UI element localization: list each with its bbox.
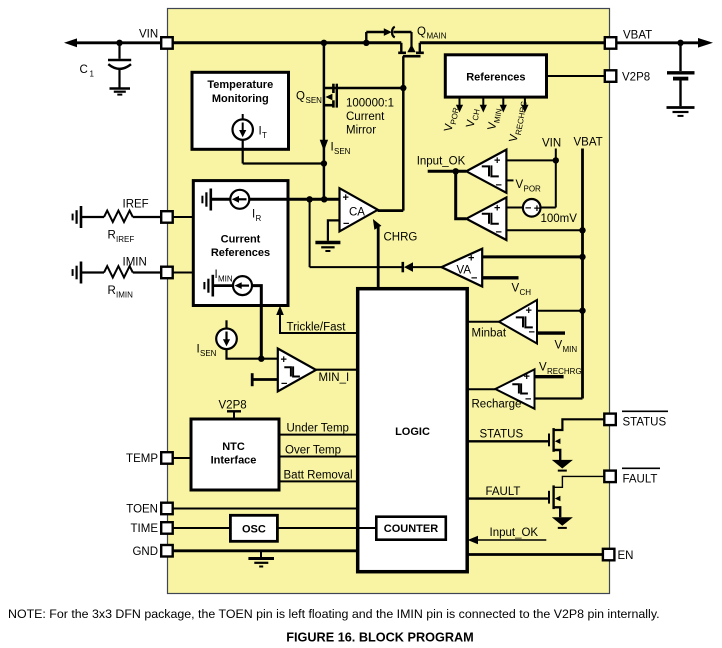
svg-text:FAULT: FAULT xyxy=(486,486,521,498)
comparator Minbat xyxy=(499,300,537,344)
svg-text:Over Temp: Over Temp xyxy=(285,445,341,457)
diode (Q_MAIN body diode) xyxy=(365,32,367,43)
current source I_T xyxy=(242,114,244,120)
svg-text:Mirror: Mirror xyxy=(346,125,376,137)
wire Under Temp xyxy=(279,434,358,436)
wire Input_OK into LOGIC xyxy=(470,539,546,541)
svg-text:References: References xyxy=(466,72,525,84)
svg-text:Temperature: Temperature xyxy=(207,79,273,91)
comparator U_100mV (Input_OK lower) xyxy=(466,197,506,240)
svg-text:Recharge: Recharge xyxy=(472,399,522,411)
svg-text:Trickle/Fast: Trickle/Fast xyxy=(287,321,347,333)
svg-text:Current: Current xyxy=(346,111,385,123)
wire I_T output to sense line xyxy=(242,140,244,164)
svg-text:−: − xyxy=(525,394,531,406)
svg-text:R: R xyxy=(256,214,262,223)
svg-text:SEN: SEN xyxy=(200,349,217,358)
wire FAULT from LOGIC to Q gate xyxy=(467,497,548,499)
svg-text:−: − xyxy=(281,378,287,390)
block Temperature Monitoring xyxy=(192,72,289,149)
current source I_R xyxy=(211,198,231,201)
resistor R_IREF xyxy=(104,211,133,222)
wire CA - input to ground xyxy=(328,220,340,240)
wire I_SEN arrow on sense line xyxy=(320,140,328,151)
wire I_SEN to MIN_I + input xyxy=(227,349,278,359)
svg-text:SEN: SEN xyxy=(306,96,323,105)
svg-text:IMIN: IMIN xyxy=(123,257,147,269)
svg-text:CA: CA xyxy=(349,207,365,219)
pin FAULT xyxy=(604,471,616,483)
pin EN xyxy=(467,553,603,556)
comparator Recharge xyxy=(495,369,534,408)
transistor Q_MAIN (PMOS pass device) xyxy=(400,43,402,52)
svg-text:STATUS: STATUS xyxy=(480,428,524,440)
comparator MIN_I xyxy=(278,349,316,392)
wire Minbat - stub V_MIN xyxy=(537,331,565,334)
wire Recharge output to LOGIC xyxy=(467,388,495,390)
svg-text:LOGIC: LOGIC xyxy=(395,426,430,438)
svg-text:Q: Q xyxy=(417,26,426,38)
node I_MIN/I_SEN junction xyxy=(258,356,264,362)
svg-text:TOEN: TOEN xyxy=(126,504,158,516)
svg-text:POR: POR xyxy=(524,185,542,194)
wire comp - to VBAT line xyxy=(506,229,582,231)
svg-text:100000:1: 100000:1 xyxy=(346,98,394,110)
ground (C1) xyxy=(110,87,131,90)
svg-text:CH: CH xyxy=(520,288,532,297)
wire Minbat + to VBAT line xyxy=(537,310,583,312)
wire STATUS from LOGIC to Q gate xyxy=(467,440,548,442)
svg-text:NOTE: For the 3x3 DFN package: NOTE: For the 3x3 DFN package, the TOEN … xyxy=(8,607,660,621)
svg-text:R: R xyxy=(108,230,116,242)
node Q_SEN branch xyxy=(321,40,327,46)
svg-text:Batt Removal: Batt Removal xyxy=(284,470,353,482)
wire OSC to COUNTER xyxy=(277,527,376,529)
node VIN/C1 junction xyxy=(116,40,122,46)
svg-text:Input_OK: Input_OK xyxy=(417,155,466,167)
wire Over Temp xyxy=(279,456,358,458)
svg-text:−: − xyxy=(496,227,502,239)
svg-text:−: − xyxy=(525,203,531,215)
svg-text:Current: Current xyxy=(221,234,261,246)
wire Minbat output to LOGIC xyxy=(467,321,499,323)
svg-text:Q: Q xyxy=(296,91,305,103)
op-amp VA (voltage amplifier) xyxy=(442,249,483,287)
ground (I_MIN, rotated) xyxy=(212,275,215,297)
ground (FAULT source) xyxy=(552,517,573,526)
wire VA output through diode to I_R node xyxy=(309,199,311,267)
wire Trickle/Fast from LOGIC to Current References xyxy=(280,315,358,334)
wire Batt Removal xyxy=(279,480,358,482)
wire Recharge - to VBAT line xyxy=(535,397,583,399)
capacitor C1 xyxy=(118,43,120,59)
battery (external) xyxy=(679,43,681,71)
node sense line on I_R wire xyxy=(321,196,327,202)
svg-text:−: − xyxy=(496,180,502,192)
comparator U_POR (Input_OK upper) xyxy=(466,150,506,193)
wire Input_OK branch to lower comparator xyxy=(456,171,467,218)
current source I_SEN (mirror output) xyxy=(225,320,227,329)
svg-text:−: − xyxy=(471,273,477,285)
wire VBAT output lead (right, with arrow) xyxy=(616,41,700,44)
svg-text:MIN_I: MIN_I xyxy=(319,372,350,384)
source 100mV offset xyxy=(523,199,541,217)
transistor Q_STATUS (open-drain NMOS) xyxy=(548,434,550,447)
svg-text:−: − xyxy=(343,218,349,230)
svg-text:NTC: NTC xyxy=(222,441,245,453)
svg-text:+: + xyxy=(524,371,530,383)
svg-text:VIN: VIN xyxy=(542,137,561,149)
wire CA output up mirror line xyxy=(378,209,404,212)
ground (battery) xyxy=(667,106,695,109)
pin IMIN group: ground, resistor R_IMIN, pin xyxy=(80,262,83,284)
svg-text:IREF: IREF xyxy=(116,235,134,244)
ground (STATUS source) xyxy=(552,460,573,469)
wire comp + to VIN line xyxy=(506,159,555,161)
svg-text:RECHRG: RECHRG xyxy=(547,367,582,376)
svg-text:TIME: TIME xyxy=(131,523,159,535)
pin V2P8 xyxy=(605,70,617,82)
wire VA + input to VBAT line xyxy=(482,255,582,258)
ground (I_R, rotated) xyxy=(210,189,213,211)
svg-text:References: References xyxy=(211,247,270,259)
pin VIN xyxy=(161,37,173,49)
wire Input_OK output xyxy=(428,170,467,173)
svg-text:Under Temp: Under Temp xyxy=(287,423,349,435)
wire VA - input stub (V_CH) xyxy=(482,276,518,279)
svg-text:+: + xyxy=(534,203,540,215)
svg-text:+: + xyxy=(526,305,532,317)
svg-text:FAULT: FAULT xyxy=(623,473,658,485)
wire VIN input lead (left, with arrow) xyxy=(64,38,77,47)
transistor Q_SEN (sense PMOS) xyxy=(323,43,326,200)
svg-text:V: V xyxy=(539,362,547,374)
svg-text:C: C xyxy=(80,64,88,76)
svg-text:+: + xyxy=(494,155,500,167)
svg-text:Minbat: Minbat xyxy=(472,327,507,339)
svg-text:R: R xyxy=(108,285,116,297)
svg-text:FIGURE 16. BLOCK PROGRAM: FIGURE 16. BLOCK PROGRAM xyxy=(286,631,474,645)
svg-text:VA: VA xyxy=(457,265,472,277)
resistor R_IMIN xyxy=(104,266,133,277)
wire MIN_I - input reference stub xyxy=(251,373,254,386)
wire I_MIN down to MIN_I comparator xyxy=(252,286,261,359)
svg-text:EN: EN xyxy=(618,550,634,562)
wire reference output arrows under References box xyxy=(459,97,461,106)
wire CHRG from LOGIC up to CA xyxy=(377,227,380,289)
op-amp CA (current amplifier) xyxy=(340,188,378,231)
svg-text:T: T xyxy=(262,131,267,140)
diode (VA output) xyxy=(401,262,404,272)
svg-text:Input_OK: Input_OK xyxy=(490,527,539,539)
svg-text:IMIN: IMIN xyxy=(116,291,133,300)
svg-text:V: V xyxy=(555,340,563,352)
block References xyxy=(445,55,546,97)
block NTC Interface xyxy=(191,419,279,490)
pin IREF xyxy=(161,211,173,223)
svg-text:TEMP: TEMP xyxy=(126,453,158,465)
svg-text:Interface: Interface xyxy=(211,455,257,467)
node VA-diode branch on I_R wire xyxy=(306,196,312,202)
block OSC xyxy=(230,515,277,541)
svg-text:SEN: SEN xyxy=(334,147,351,156)
block Current References xyxy=(193,181,288,306)
svg-text:IREF: IREF xyxy=(123,199,149,211)
svg-text:V: V xyxy=(512,283,520,295)
svg-text:MIN: MIN xyxy=(563,345,578,354)
node mirror gate junction xyxy=(400,85,406,91)
pin STATUS xyxy=(604,414,616,426)
IC body (yellow block) xyxy=(168,9,610,594)
svg-text:VIN: VIN xyxy=(139,29,158,41)
svg-text:+: + xyxy=(468,253,474,265)
wire comp - stub V_POR xyxy=(506,179,513,181)
ground (CA -) xyxy=(315,241,340,244)
transistor Q_FAULT (open-drain NMOS) xyxy=(548,491,550,504)
svg-text:+: + xyxy=(343,192,349,204)
wire VIN rail (right of Q_MAIN to VBAT pin) xyxy=(420,41,605,44)
node diode branch xyxy=(363,40,369,46)
node battery junction xyxy=(677,40,683,46)
svg-text:GND: GND xyxy=(132,546,158,558)
svg-text:+: + xyxy=(281,354,287,366)
svg-text:VBAT: VBAT xyxy=(574,137,603,149)
wire VIN rail (inside, left of Q_MAIN) xyxy=(173,41,402,44)
svg-text:COUNTER: COUNTER xyxy=(384,523,438,535)
block COUNTER xyxy=(376,517,446,540)
block LOGIC xyxy=(358,289,468,572)
wire References to V2P8 pin xyxy=(547,75,606,77)
pin IMIN xyxy=(161,267,173,279)
svg-text:−: − xyxy=(529,327,535,339)
svg-text:STATUS: STATUS xyxy=(623,416,667,428)
wire comp + to 100mV source xyxy=(506,207,523,209)
wire I_R reference to CA + input xyxy=(249,198,340,201)
pin IREF group: ground, resistor R_IREF, pin xyxy=(80,206,83,228)
wire MIN_I output to LOGIC xyxy=(316,369,358,371)
wire Q_MAIN gate / mirror line down to node xyxy=(402,56,404,88)
svg-text:MIN: MIN xyxy=(218,275,233,284)
svg-text:+: + xyxy=(494,203,500,215)
svg-text:100mV: 100mV xyxy=(541,213,578,225)
node I_T join xyxy=(321,160,327,166)
svg-text:VBAT: VBAT xyxy=(623,29,652,41)
wire Recharge + stub V_RECHRG xyxy=(535,375,564,378)
svg-text:V: V xyxy=(516,179,524,191)
svg-text:MAIN: MAIN xyxy=(427,32,447,41)
svg-text:Monitoring: Monitoring xyxy=(212,93,269,105)
svg-text:1: 1 xyxy=(90,70,95,79)
svg-text:V2P8: V2P8 xyxy=(219,400,247,412)
svg-text:OSC: OSC xyxy=(242,523,266,535)
svg-text:V2P8: V2P8 xyxy=(622,71,650,83)
svg-text:CHRG: CHRG xyxy=(384,231,418,243)
ground (GND rail) xyxy=(260,551,262,558)
